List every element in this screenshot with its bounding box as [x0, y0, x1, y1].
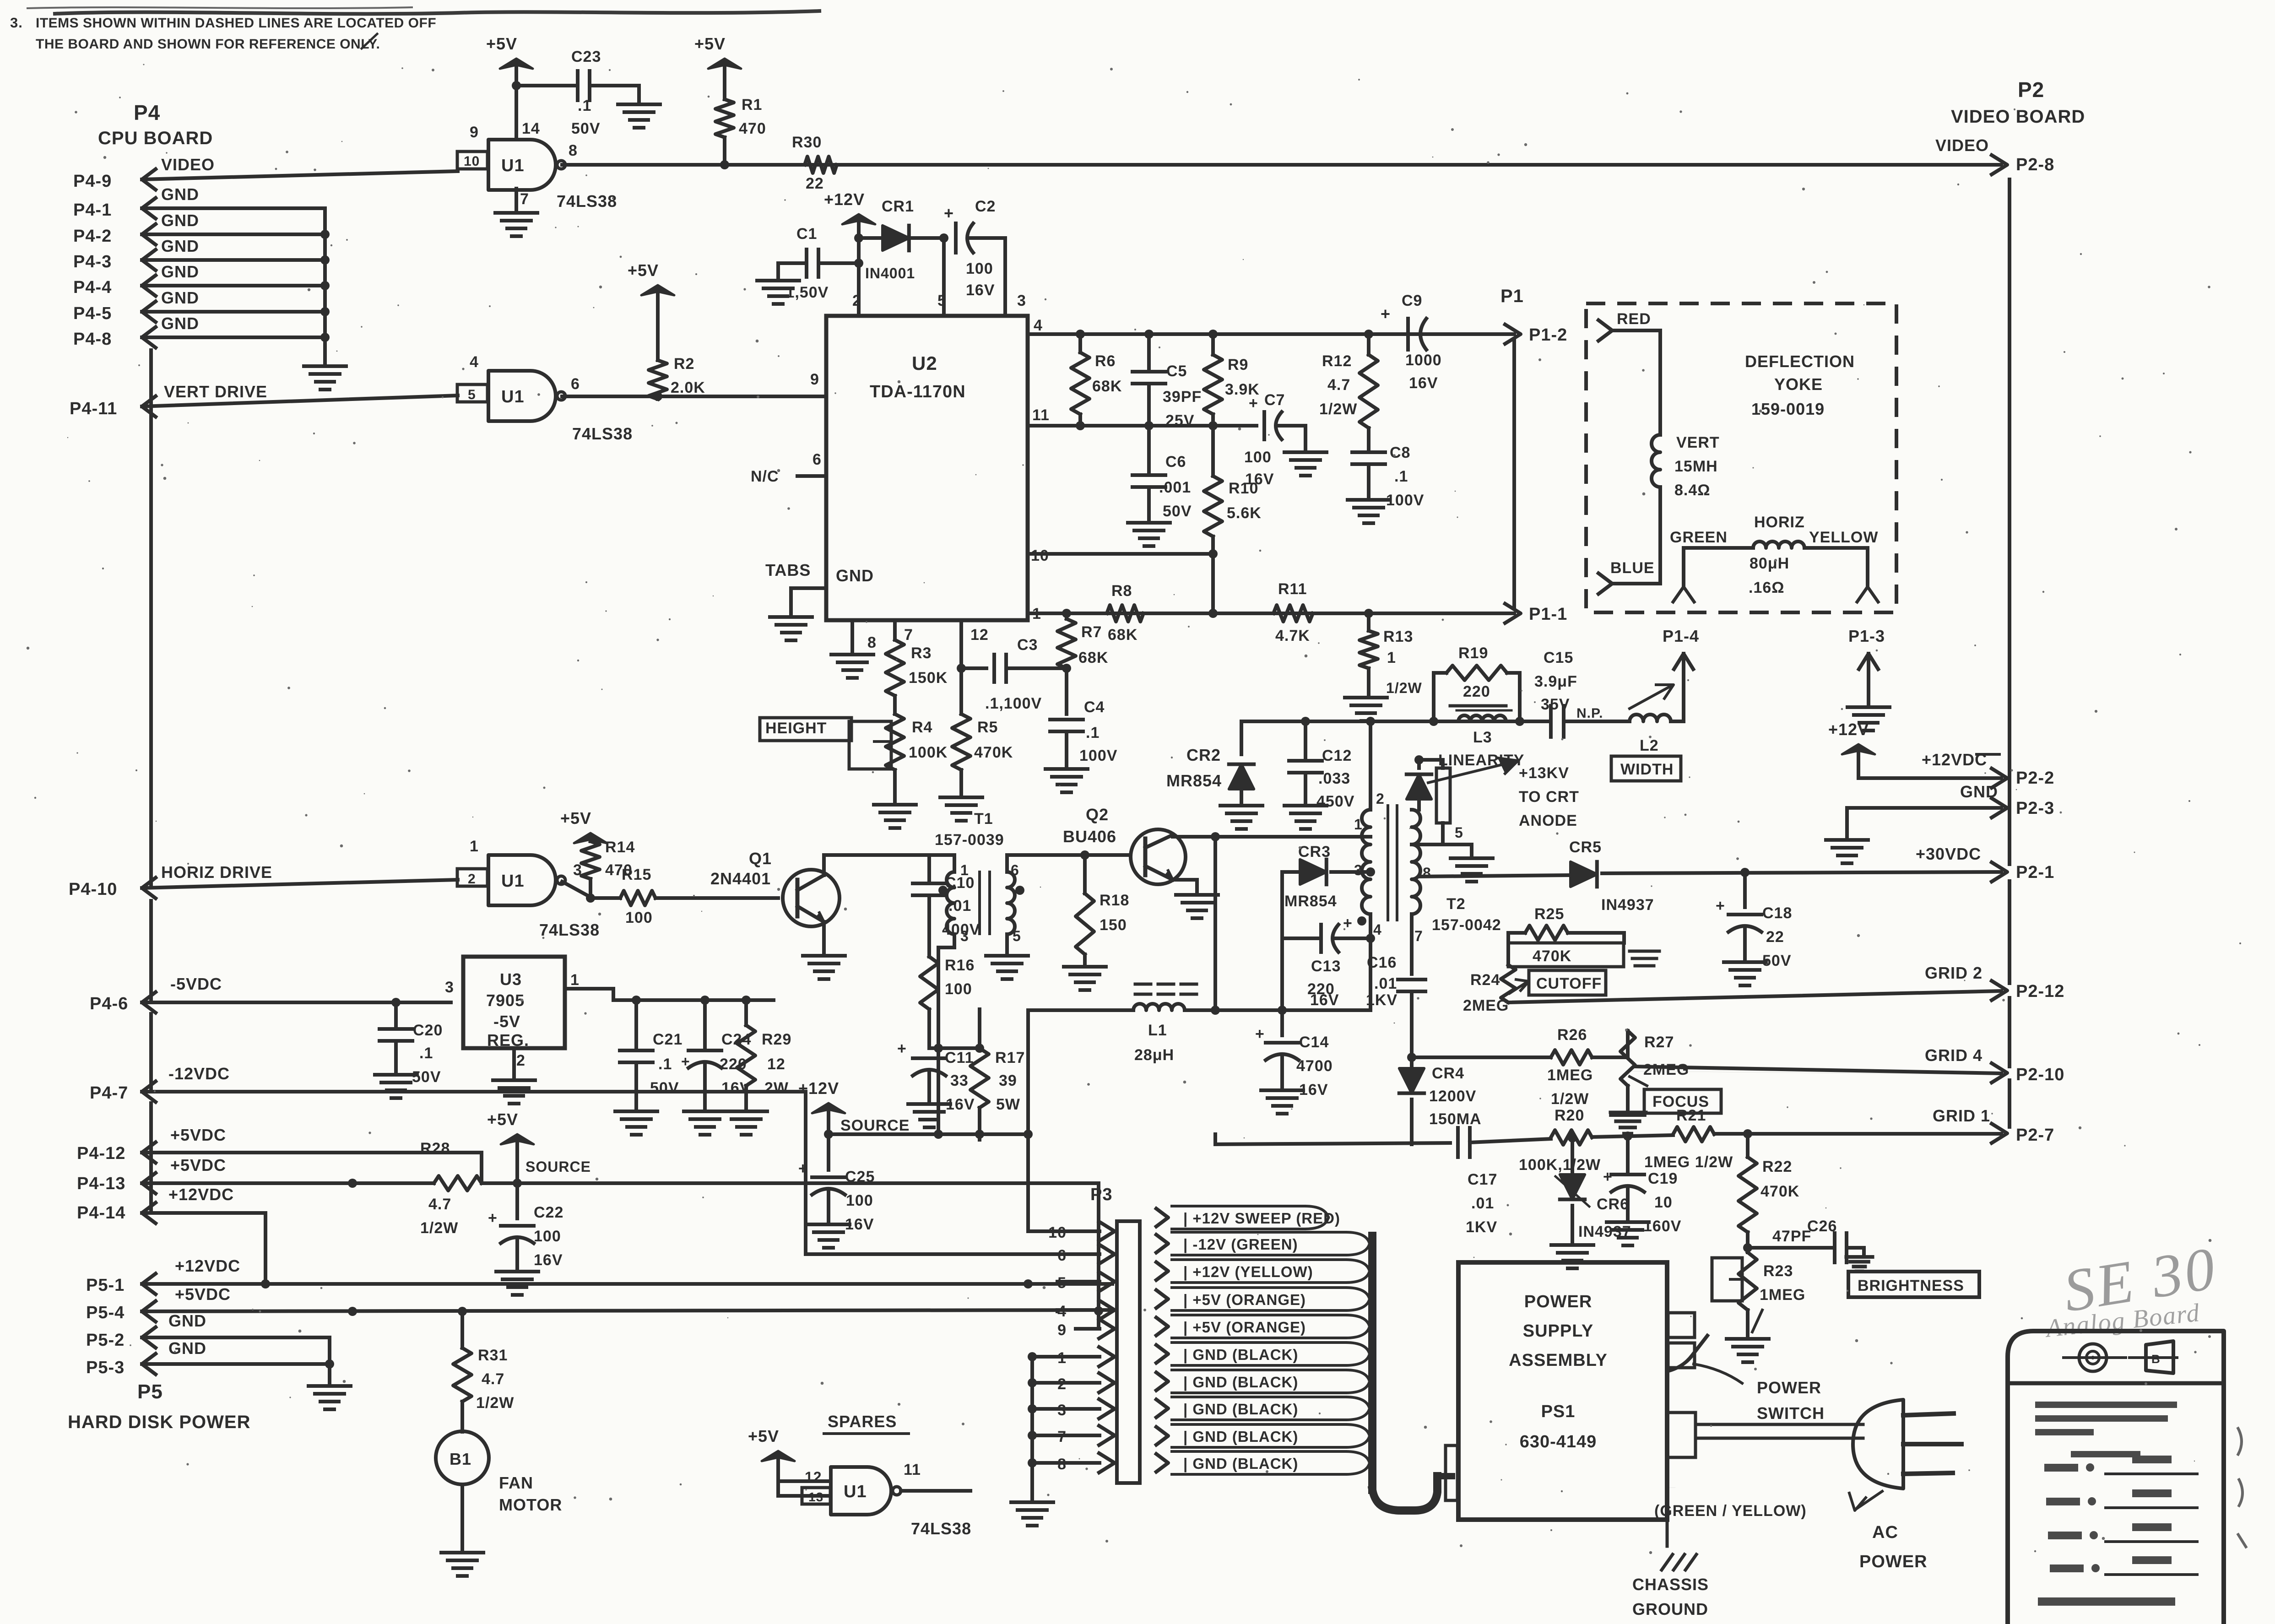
- svg-text:+5VDC: +5VDC: [175, 1285, 231, 1304]
- svg-text:P1: P1: [1500, 286, 1524, 306]
- svg-text:R22: R22: [1762, 1158, 1792, 1175]
- svg-text:1MEG: 1MEG: [1547, 1066, 1593, 1084]
- svg-text:450V: 450V: [1316, 793, 1354, 810]
- svg-text:25V: 25V: [1165, 412, 1195, 429]
- svg-text:1: 1: [570, 971, 580, 989]
- svg-text:CR3: CR3: [1298, 843, 1331, 861]
- svg-text:MR854: MR854: [1284, 893, 1337, 910]
- svg-text:| GND (BLACK): | GND (BLACK): [1183, 1346, 1298, 1363]
- svg-text:16V: 16V: [966, 281, 995, 299]
- svg-text:PS1: PS1: [1541, 1402, 1576, 1421]
- svg-text:C1: C1: [796, 225, 817, 243]
- svg-text:5: 5: [1013, 928, 1021, 944]
- svg-text:16V: 16V: [1310, 991, 1339, 1009]
- svg-text:39: 39: [999, 1072, 1017, 1089]
- svg-text:N/C: N/C: [751, 468, 779, 485]
- svg-text:C6: C6: [1165, 453, 1186, 471]
- svg-text:SOURCE: SOURCE: [840, 1117, 910, 1134]
- svg-text:P4-9: P4-9: [73, 172, 112, 191]
- svg-text:P4-4: P4-4: [73, 278, 112, 297]
- svg-text:+5V: +5V: [560, 809, 591, 828]
- svg-text:11: 11: [904, 1461, 921, 1478]
- svg-text:100K,1/2W: 100K,1/2W: [1519, 1156, 1601, 1174]
- svg-text:C18: C18: [1762, 904, 1792, 922]
- svg-text:FAN: FAN: [499, 1473, 533, 1492]
- svg-text:150MA: 150MA: [1429, 1110, 1482, 1128]
- svg-text:IN4937: IN4937: [1601, 896, 1654, 914]
- svg-text:.001: .001: [1159, 479, 1191, 496]
- svg-text:R15: R15: [622, 866, 651, 883]
- svg-text:74LS38: 74LS38: [911, 1519, 971, 1538]
- svg-text:8: 8: [867, 634, 877, 651]
- svg-text:.01: .01: [1374, 975, 1397, 992]
- svg-text:470K: 470K: [974, 744, 1013, 761]
- svg-text:P4: P4: [134, 101, 160, 125]
- svg-text:SUPPLY: SUPPLY: [1523, 1321, 1594, 1341]
- svg-text:47PF: 47PF: [1772, 1228, 1811, 1245]
- svg-text:P4-14: P4-14: [77, 1203, 125, 1223]
- svg-text:3: 3: [1017, 292, 1026, 309]
- svg-text:MOTOR: MOTOR: [499, 1495, 562, 1514]
- svg-text:4700: 4700: [1296, 1057, 1333, 1075]
- svg-text:YELLOW: YELLOW: [1809, 529, 1878, 546]
- svg-text:2: 2: [516, 1052, 525, 1069]
- svg-text:R20: R20: [1555, 1107, 1584, 1124]
- svg-text:ASSEMBLY: ASSEMBLY: [1509, 1351, 1608, 1370]
- svg-text:5: 5: [468, 387, 476, 402]
- svg-text:C3: C3: [1017, 636, 1038, 654]
- svg-text:4.7: 4.7: [482, 1370, 504, 1388]
- svg-text:35V: 35V: [1541, 696, 1570, 713]
- svg-text:BLUE: BLUE: [1610, 559, 1655, 577]
- svg-text:8: 8: [1423, 865, 1431, 881]
- svg-text:.01: .01: [1471, 1195, 1494, 1212]
- svg-text:C5: C5: [1166, 363, 1187, 380]
- svg-text:L1: L1: [1148, 1022, 1167, 1039]
- svg-text:B1: B1: [450, 1450, 471, 1468]
- svg-text:100: 100: [1244, 449, 1272, 466]
- svg-text:VIDEO: VIDEO: [1935, 136, 1989, 155]
- svg-text:1000: 1000: [1405, 352, 1442, 369]
- svg-text:+13KV: +13KV: [1519, 764, 1569, 782]
- svg-text:470K: 470K: [1533, 947, 1571, 965]
- svg-text:12: 12: [767, 1056, 785, 1073]
- svg-text:100V: 100V: [1079, 747, 1117, 764]
- svg-text:80μH: 80μH: [1750, 555, 1789, 572]
- svg-text:| +5V (ORANGE): | +5V (ORANGE): [1183, 1291, 1306, 1308]
- svg-text:CR5: CR5: [1569, 839, 1602, 856]
- svg-text:+5V: +5V: [748, 1427, 779, 1445]
- svg-text:157-0042: 157-0042: [1432, 916, 1501, 934]
- svg-text:GREEN: GREEN: [1670, 529, 1728, 546]
- svg-text:C20: C20: [413, 1022, 443, 1039]
- svg-text:C9: C9: [1402, 292, 1422, 309]
- svg-text:C16: C16: [1367, 954, 1397, 971]
- svg-text:WIDTH: WIDTH: [1620, 761, 1674, 778]
- svg-text:C17: C17: [1468, 1171, 1497, 1188]
- svg-text:74LS38: 74LS38: [557, 192, 617, 211]
- svg-text:10: 10: [464, 154, 480, 169]
- svg-text:11: 11: [1032, 406, 1050, 424]
- svg-text:P4-10: P4-10: [69, 880, 117, 899]
- svg-text:16V: 16V: [1409, 374, 1438, 392]
- svg-text:P4-11: P4-11: [70, 399, 117, 418]
- svg-text:2: 2: [1376, 790, 1385, 807]
- svg-text:6: 6: [1011, 862, 1019, 878]
- svg-text:P5-1: P5-1: [86, 1276, 125, 1295]
- svg-text:P1-3: P1-3: [1848, 627, 1885, 645]
- svg-text:VIDEO: VIDEO: [161, 155, 215, 174]
- svg-text:REG.: REG.: [487, 1031, 529, 1050]
- svg-text:VERT DRIVE: VERT DRIVE: [164, 382, 267, 401]
- svg-text:P1-2: P1-2: [1529, 325, 1567, 345]
- svg-text:P5: P5: [137, 1380, 163, 1403]
- svg-text:+30VDC: +30VDC: [1916, 844, 1981, 863]
- svg-text:150K: 150K: [909, 669, 948, 687]
- svg-text:| GND (BLACK): | GND (BLACK): [1183, 1455, 1298, 1472]
- svg-text:P2-3: P2-3: [2016, 799, 2054, 818]
- svg-text:P2-2: P2-2: [2016, 769, 2054, 788]
- svg-text:IN4001: IN4001: [865, 265, 915, 281]
- svg-text:RED: RED: [1617, 310, 1651, 328]
- svg-text:GND: GND: [168, 1339, 206, 1358]
- svg-text:CPU BOARD: CPU BOARD: [98, 128, 213, 148]
- svg-text:T1: T1: [974, 810, 993, 828]
- svg-text:+: +: [897, 1040, 907, 1057]
- svg-text:C15: C15: [1544, 649, 1573, 666]
- svg-text:.16Ω: .16Ω: [1749, 579, 1785, 596]
- svg-text:AC: AC: [1872, 1523, 1898, 1542]
- svg-text:R7: R7: [1081, 623, 1102, 641]
- svg-text:GRID 4: GRID 4: [1925, 1046, 1982, 1065]
- svg-text:.01: .01: [948, 897, 971, 915]
- svg-text:R2: R2: [674, 355, 694, 373]
- svg-text:THE BOARD AND SHOWN FOR REFERE: THE BOARD AND SHOWN FOR REFERENCE ONLY.: [36, 37, 380, 52]
- svg-text:P4-13: P4-13: [77, 1174, 125, 1193]
- svg-text:N.P.: N.P.: [1576, 706, 1603, 721]
- svg-text:R29: R29: [762, 1031, 791, 1048]
- svg-text:POWER: POWER: [1859, 1552, 1928, 1571]
- svg-text:C22: C22: [534, 1204, 563, 1221]
- svg-text:7905: 7905: [486, 991, 525, 1010]
- svg-text:10: 10: [1654, 1194, 1673, 1211]
- svg-text:C19: C19: [1648, 1170, 1678, 1187]
- svg-text:.1: .1: [419, 1045, 433, 1062]
- svg-text:+5V: +5V: [694, 34, 726, 53]
- svg-text:POWER: POWER: [1757, 1378, 1821, 1397]
- svg-text:L2: L2: [1640, 737, 1659, 754]
- svg-text:| +12V (YELLOW): | +12V (YELLOW): [1183, 1263, 1313, 1280]
- svg-text:R1: R1: [742, 96, 762, 114]
- svg-text:6: 6: [812, 451, 822, 468]
- svg-text:1200V: 1200V: [1429, 1088, 1476, 1105]
- svg-text:4.7: 4.7: [1327, 376, 1350, 394]
- svg-text:.1: .1: [578, 97, 591, 114]
- svg-text:SOURCE: SOURCE: [525, 1158, 591, 1175]
- svg-text:C4: C4: [1084, 698, 1105, 716]
- svg-text:P4-1: P4-1: [73, 200, 112, 220]
- svg-text:2: 2: [468, 872, 476, 887]
- svg-text:4: 4: [1373, 921, 1382, 938]
- svg-text:100: 100: [534, 1228, 561, 1245]
- svg-text:Q1: Q1: [749, 849, 772, 868]
- svg-text:100: 100: [966, 260, 993, 277]
- svg-text:SPARES: SPARES: [828, 1412, 897, 1431]
- svg-text:GND: GND: [836, 566, 874, 585]
- svg-text:P2: P2: [2018, 78, 2044, 102]
- svg-text:+12V: +12V: [1828, 720, 1869, 739]
- svg-text:4.7: 4.7: [428, 1196, 451, 1213]
- svg-text:CR1: CR1: [882, 198, 914, 215]
- svg-text:L3: L3: [1473, 729, 1492, 746]
- svg-text:GND: GND: [161, 262, 199, 281]
- svg-text:BRIGHTNESS: BRIGHTNESS: [1858, 1277, 1964, 1294]
- svg-text:P2-7: P2-7: [2016, 1126, 2054, 1145]
- svg-text:+: +: [488, 1209, 498, 1227]
- svg-text:R5: R5: [977, 719, 998, 736]
- svg-text:P5-2: P5-2: [86, 1331, 125, 1350]
- svg-text:P1-1: P1-1: [1529, 605, 1567, 624]
- svg-text:7: 7: [1414, 928, 1423, 944]
- svg-text:R6: R6: [1095, 352, 1116, 370]
- svg-text:CR4: CR4: [1432, 1065, 1464, 1082]
- svg-text:100: 100: [945, 980, 972, 998]
- svg-text:33: 33: [950, 1072, 969, 1089]
- svg-text:GND: GND: [161, 314, 199, 333]
- svg-text:P4-6: P4-6: [90, 994, 128, 1013]
- svg-text:7: 7: [520, 190, 529, 208]
- svg-text:+12V: +12V: [824, 190, 865, 209]
- svg-text:P5-3: P5-3: [86, 1358, 125, 1377]
- svg-text:SWITCH: SWITCH: [1757, 1404, 1825, 1423]
- svg-text:1KV: 1KV: [1366, 991, 1397, 1009]
- svg-text:4.7K: 4.7K: [1275, 627, 1310, 644]
- svg-text:| -12V (GREEN): | -12V (GREEN): [1183, 1236, 1298, 1253]
- svg-text:| +5V (ORANGE): | +5V (ORANGE): [1183, 1319, 1306, 1336]
- svg-text:CR6: CR6: [1597, 1196, 1629, 1213]
- svg-text:R14: R14: [605, 839, 635, 856]
- svg-text:1/2W: 1/2W: [476, 1394, 514, 1412]
- svg-text:5.6K: 5.6K: [1227, 504, 1262, 522]
- svg-text:TDA-1170N: TDA-1170N: [870, 382, 966, 401]
- svg-text:+5V: +5V: [486, 34, 517, 53]
- svg-text:50V: 50V: [412, 1068, 441, 1086]
- svg-text:(GREEN / YELLOW): (GREEN / YELLOW): [1654, 1502, 1807, 1520]
- svg-text:YOKE: YOKE: [1774, 375, 1823, 394]
- svg-text:68K: 68K: [1092, 378, 1122, 395]
- svg-text:C8: C8: [1390, 444, 1410, 461]
- svg-text:GRID 1: GRID 1: [1933, 1106, 1990, 1125]
- svg-text:R26: R26: [1557, 1026, 1587, 1044]
- svg-text:P4-7: P4-7: [90, 1083, 128, 1103]
- svg-text:R28: R28: [420, 1140, 450, 1157]
- svg-text:R30: R30: [792, 134, 822, 151]
- svg-text:R27: R27: [1644, 1034, 1674, 1051]
- svg-text:TABS: TABS: [765, 561, 811, 579]
- svg-text:159-0019: 159-0019: [1751, 400, 1825, 418]
- svg-text:C14: C14: [1299, 1034, 1329, 1051]
- svg-text:R18: R18: [1100, 892, 1129, 909]
- svg-text:C7: C7: [1264, 391, 1285, 409]
- svg-text:1: 1: [1387, 649, 1396, 666]
- svg-text:VIDEO BOARD: VIDEO BOARD: [1951, 107, 2085, 127]
- svg-text:GRID 2: GRID 2: [1925, 964, 1982, 982]
- svg-text:1/2W: 1/2W: [420, 1219, 458, 1237]
- svg-text:C2: C2: [975, 198, 996, 215]
- svg-text:3.: 3.: [10, 15, 23, 31]
- svg-text:U1: U1: [844, 1482, 867, 1501]
- svg-text:100: 100: [846, 1192, 873, 1209]
- svg-text:50V: 50V: [650, 1079, 679, 1097]
- svg-text:8.4Ω: 8.4Ω: [1674, 482, 1711, 499]
- svg-text:C24: C24: [721, 1031, 751, 1048]
- svg-text:R21: R21: [1676, 1107, 1706, 1124]
- svg-text:R8: R8: [1111, 582, 1132, 600]
- svg-text:| +12V SWEEP (RED): | +12V SWEEP (RED): [1183, 1210, 1340, 1227]
- svg-text:9: 9: [810, 371, 819, 388]
- svg-text:4: 4: [470, 353, 479, 371]
- svg-text:15MH: 15MH: [1674, 458, 1718, 475]
- svg-text:P4-3: P4-3: [73, 252, 112, 271]
- svg-text:400V: 400V: [942, 921, 980, 938]
- svg-text:+5VDC: +5VDC: [170, 1126, 226, 1144]
- svg-text:68K: 68K: [1078, 649, 1108, 666]
- svg-text:P1-4: P1-4: [1663, 627, 1699, 645]
- svg-text:P2-10: P2-10: [2016, 1065, 2064, 1084]
- svg-text:28μH: 28μH: [1134, 1046, 1174, 1064]
- svg-text:R24: R24: [1470, 971, 1500, 989]
- svg-text:C10: C10: [945, 874, 975, 892]
- svg-text:CR2: CR2: [1186, 746, 1221, 764]
- svg-text:50V: 50V: [1163, 503, 1192, 520]
- svg-text:470K: 470K: [1760, 1183, 1799, 1200]
- svg-text:+5V: +5V: [487, 1110, 518, 1129]
- svg-text:+12VDC: +12VDC: [168, 1185, 234, 1204]
- svg-text:1KV: 1KV: [1466, 1218, 1497, 1236]
- svg-text:R19: R19: [1458, 644, 1488, 662]
- svg-text:150: 150: [1100, 916, 1127, 934]
- svg-text:9: 9: [1057, 1321, 1067, 1339]
- svg-text:P4-8: P4-8: [73, 330, 112, 349]
- svg-text:C13: C13: [1311, 958, 1341, 975]
- svg-text:14: 14: [522, 120, 540, 137]
- svg-text:.1: .1: [1086, 724, 1100, 742]
- svg-text:| GND (BLACK): | GND (BLACK): [1183, 1401, 1298, 1418]
- svg-text:100K: 100K: [909, 744, 948, 761]
- svg-text:POWER: POWER: [1524, 1292, 1592, 1311]
- svg-text:C26: C26: [1807, 1218, 1837, 1235]
- svg-text:P3: P3: [1090, 1185, 1112, 1204]
- svg-text:+12VDC: +12VDC: [175, 1256, 240, 1275]
- svg-text:GROUND: GROUND: [1632, 1600, 1708, 1619]
- svg-text:5: 5: [1455, 824, 1463, 841]
- svg-text:GND: GND: [161, 237, 199, 255]
- svg-text:-5VDC: -5VDC: [170, 974, 222, 993]
- svg-text:ANODE: ANODE: [1519, 812, 1577, 829]
- svg-text:HARD DISK POWER: HARD DISK POWER: [68, 1412, 250, 1432]
- svg-text:22: 22: [1766, 928, 1784, 946]
- svg-text:6: 6: [571, 375, 580, 393]
- svg-text:+: +: [1255, 1025, 1265, 1043]
- svg-text:160V: 160V: [1643, 1218, 1681, 1235]
- svg-text:1: 1: [470, 838, 479, 855]
- svg-text:1MEG 1/2W: 1MEG 1/2W: [1644, 1153, 1733, 1171]
- svg-text:-5V: -5V: [493, 1012, 520, 1031]
- svg-text:B: B: [2151, 1352, 2161, 1366]
- svg-text:68K: 68K: [1108, 626, 1137, 644]
- svg-text:P4-5: P4-5: [73, 304, 112, 323]
- svg-text:U1: U1: [501, 872, 525, 891]
- svg-text:+5V: +5V: [628, 261, 659, 280]
- svg-text:GND: GND: [161, 211, 199, 230]
- svg-text:3: 3: [445, 979, 454, 996]
- svg-text:5W: 5W: [996, 1096, 1020, 1113]
- svg-text:HORIZ DRIVE: HORIZ DRIVE: [161, 863, 272, 882]
- svg-text:2W: 2W: [764, 1079, 789, 1097]
- svg-text:GND: GND: [161, 288, 199, 307]
- svg-text:GND: GND: [161, 185, 199, 204]
- svg-text:630-4149: 630-4149: [1520, 1432, 1597, 1451]
- svg-text:C21: C21: [653, 1031, 682, 1048]
- svg-text:4: 4: [1034, 317, 1043, 334]
- svg-text:C12: C12: [1322, 747, 1352, 764]
- svg-text:HEIGHT: HEIGHT: [765, 720, 827, 737]
- svg-text:1: 1: [1354, 816, 1363, 833]
- svg-text:1/2W: 1/2W: [1386, 680, 1422, 696]
- svg-text:157-0039: 157-0039: [935, 831, 1004, 849]
- svg-text:470: 470: [739, 120, 766, 137]
- svg-text:P4-2: P4-2: [73, 227, 112, 246]
- svg-text:+: +: [944, 204, 954, 222]
- svg-text:+: +: [1603, 1168, 1613, 1186]
- svg-text:U1: U1: [501, 156, 525, 175]
- svg-text:.1,50V: .1,50V: [781, 284, 829, 301]
- svg-text:100V: 100V: [1386, 492, 1424, 509]
- svg-text:C11: C11: [945, 1049, 974, 1066]
- svg-text:TO CRT: TO CRT: [1519, 788, 1579, 806]
- svg-text:CHASSIS: CHASSIS: [1632, 1575, 1709, 1594]
- svg-text:100: 100: [625, 909, 653, 926]
- svg-text:3.9μF: 3.9μF: [1534, 673, 1577, 690]
- svg-text:+: +: [1249, 395, 1258, 412]
- svg-text:R31: R31: [478, 1347, 508, 1364]
- svg-text:U1: U1: [501, 387, 525, 406]
- svg-text:P2-8: P2-8: [2016, 155, 2054, 174]
- svg-text:R9: R9: [1228, 356, 1248, 374]
- svg-text:GND: GND: [168, 1311, 206, 1330]
- svg-text:R12: R12: [1322, 352, 1352, 370]
- svg-text:74LS38: 74LS38: [539, 920, 600, 939]
- svg-text:-12VDC: -12VDC: [168, 1064, 230, 1083]
- svg-text:+5VDC: +5VDC: [170, 1156, 226, 1175]
- svg-text:U3: U3: [500, 970, 522, 989]
- svg-text:Q2: Q2: [1086, 805, 1109, 824]
- svg-text:VERT: VERT: [1676, 434, 1720, 451]
- svg-text:R13: R13: [1383, 628, 1413, 645]
- svg-text:| GND (BLACK): | GND (BLACK): [1183, 1428, 1298, 1445]
- svg-text:9: 9: [470, 124, 479, 141]
- svg-text:13: 13: [808, 1490, 823, 1504]
- svg-text:R3: R3: [911, 644, 932, 662]
- svg-text:R4: R4: [912, 719, 932, 736]
- svg-text:BU406: BU406: [1063, 827, 1116, 846]
- svg-text:7: 7: [904, 626, 913, 644]
- svg-text:R17: R17: [995, 1049, 1025, 1066]
- svg-text:.1: .1: [1394, 468, 1408, 485]
- svg-text:8: 8: [569, 142, 578, 159]
- svg-text:2N4401: 2N4401: [710, 869, 771, 888]
- svg-text:R11: R11: [1278, 580, 1307, 598]
